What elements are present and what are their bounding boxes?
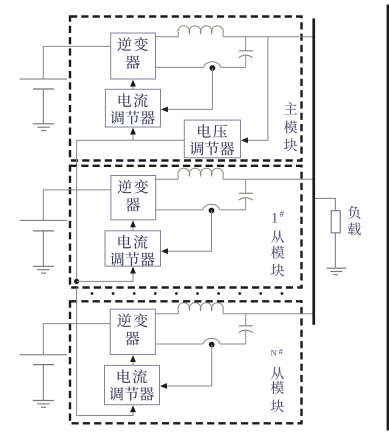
arrowhead: current feedback into 电流调节器 (slave N 从模块) <box>160 383 167 389</box>
DC source / battery plates (slave N 从模块) <box>20 355 68 401</box>
current sensor (hall CT) on output (slave 1 从模块) <box>203 204 220 213</box>
ground symbol of DC source (slave N 从模块) <box>33 401 54 408</box>
module frame: slave N 从模块 (dashed box) <box>70 301 302 423</box>
current sensor (hall CT) on output (slave N 从模块) <box>203 338 220 347</box>
wire: current feedback to current regulator (master 主模块) <box>166 68 212 109</box>
wire: current feedback to current regulator (slave 1 从模块) <box>166 211 212 252</box>
wire: inverter return to capacitor (master 主模块) <box>156 66 246 68</box>
wire+arrow: current regulator drive into inverter (slave N 从模块) <box>130 355 136 365</box>
filter capacitor C (slave N 从模块) <box>239 314 253 344</box>
module label 从模块 (slave N) <box>271 367 284 412</box>
filter inductor L (slave 1 从模块) <box>178 168 223 179</box>
module label 从模块 (slave 1) <box>271 230 284 276</box>
module frame: master 主模块 (dashed box) <box>70 17 302 161</box>
wire: current feedback to current regulator (slave N 从模块) <box>165 345 212 386</box>
svg-text:#: # <box>280 209 285 219</box>
page border line (right edge) <box>387 5 389 431</box>
shared reference line segment through slave N <box>76 288 78 416</box>
filter capacitor C (master 主模块) <box>239 37 253 68</box>
wire+arrow: reference into current regulator bottom (slave N) <box>77 405 136 415</box>
DC source wire into inverter (slave 1 从模块) <box>43 190 111 221</box>
load resistor 负载 <box>331 211 340 233</box>
wire: inverter AC output to filter inductor (master 主模块) <box>156 36 179 38</box>
current sensor (hall CT) on output (master 主模块) <box>204 62 221 71</box>
ground symbol of DC source (slave 1 从模块) <box>33 266 54 273</box>
wire: voltage regulator output (current reference) (master) <box>77 140 185 166</box>
module label 主模块 (master) <box>284 102 297 151</box>
wire: bus tap to load <box>315 198 335 210</box>
wire: inverter return to capacitor (slave 1 从模块) <box>156 209 246 211</box>
wire: voltage feedback from bus line (master) <box>246 37 268 141</box>
wire: inverter AC output to filter inductor (slave N 从模块) <box>155 313 178 315</box>
DC source / battery plates (master 主模块) <box>20 79 68 124</box>
wire: inverter return to capacitor (slave N 从模块) <box>155 343 245 345</box>
DC source wire into inverter (master 主模块) <box>43 46 110 79</box>
filter capacitor C (slave 1 从模块) <box>239 179 253 210</box>
module frame: slave 1 从模块 (dashed box) <box>70 166 302 288</box>
paralleling output bus (thick) <box>312 18 315 324</box>
arrowhead: current feedback into 电流调节器 (slave 1 从模块) <box>161 248 168 254</box>
voltage regulator box 电压调节器 (master) <box>184 120 240 158</box>
arrowhead: voltage feedback into 电压调节器 (master) <box>241 137 248 143</box>
shared reference line segment through slave 1 <box>76 166 78 282</box>
wire: inductor to paralleling bus (master 主模块) <box>223 36 314 38</box>
inverter box 逆变器 (slave 1 从模块) <box>111 176 156 220</box>
current regulator box 电流调节器 (master 主模块) <box>105 89 160 127</box>
filter inductor L (master 主模块) <box>178 26 223 37</box>
svg-text:1: 1 <box>271 211 278 227</box>
filter inductor L (slave N 从模块) <box>178 303 223 314</box>
ground symbol of DC source (master 主模块) <box>33 124 54 131</box>
wire: inductor to paralleling bus (slave N 从模块) <box>223 313 314 315</box>
DC source / battery plates (slave 1 从模块) <box>20 220 68 266</box>
DC source wire into inverter (slave N 从模块) <box>43 324 110 355</box>
wire+arrow: current regulator drive into inverter (master 主模块) <box>130 80 136 90</box>
svg-text:N: N <box>271 348 278 358</box>
wire+arrow: reference into current regulator bottom (master) <box>130 128 136 141</box>
wire: load resistor to ground <box>334 233 336 268</box>
load label 负载 <box>348 206 361 236</box>
wire: inverter AC output to filter inductor (slave 1 从模块) <box>156 178 179 180</box>
svg-text:#: # <box>279 347 284 357</box>
ground symbol of load <box>327 268 347 275</box>
current regulator box 电流调节器 (slave 1 从模块) <box>105 231 161 266</box>
arrowhead: current feedback into 电流调节器 (master 主模块) <box>161 107 168 113</box>
junction dot on reference line (slave 1) <box>74 279 79 284</box>
wire: inductor to paralleling bus (slave 1 从模块) <box>223 178 314 180</box>
wire+arrow: reference into current regulator bottom (slave 1) <box>77 267 136 282</box>
wire+arrow: current regulator drive into inverter (slave 1 从模块) <box>130 220 136 230</box>
current regulator box 电流调节器 (slave N 从模块) <box>105 365 160 404</box>
ellipsis dots row (more slave modules) <box>91 292 284 295</box>
inverter box 逆变器 (master 主模块) <box>111 33 156 79</box>
inverter box 逆变器 (slave N 从模块) <box>110 309 155 354</box>
